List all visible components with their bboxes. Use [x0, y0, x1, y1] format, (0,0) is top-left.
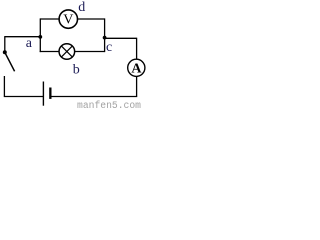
wire lamp branch right segment	[75, 51, 105, 53]
node junction dot left	[38, 35, 42, 39]
battery short plate (negative)	[49, 88, 51, 99]
wire top rail right segment	[78, 18, 105, 20]
node junction dot right	[103, 36, 107, 40]
wire from junction c to ammeter branch	[105, 37, 137, 39]
wire right vertical of parallel block	[104, 18, 106, 52]
switch blade (open)	[5, 52, 15, 71]
svg-text:A: A	[131, 62, 142, 77]
lamp cross diagonal 2	[61, 46, 72, 57]
svg-text:c: c	[106, 40, 112, 55]
svg-text:b: b	[73, 62, 80, 77]
voltmeter V (circle)	[59, 10, 77, 28]
wire lamp branch left segment	[40, 51, 60, 53]
switch pivot dot	[3, 50, 7, 54]
svg-text:a: a	[26, 36, 33, 51]
svg-text:V: V	[63, 12, 73, 27]
ammeter A (circle)	[128, 59, 145, 76]
wire bottom rail right segment	[51, 96, 137, 98]
wire bottom rail left segment	[4, 96, 44, 98]
svg-text:d: d	[78, 0, 85, 15]
wire ammeter branch upper vertical	[136, 38, 138, 59]
wire switch bottom terminal	[3, 76, 5, 97]
wire from node a to junction	[5, 36, 41, 38]
lamp cross diagonal 1	[61, 46, 72, 57]
wire left vertical of parallel block	[39, 18, 41, 52]
svg-text:manfen5.com: manfen5.com	[77, 100, 141, 109]
battery long plate (positive)	[42, 82, 44, 106]
lamp (bulb circle)	[59, 44, 75, 60]
wire left drop to switch	[4, 36, 6, 52]
wire top rail left segment	[40, 18, 59, 20]
wire ammeter branch lower vertical	[136, 77, 138, 97]
